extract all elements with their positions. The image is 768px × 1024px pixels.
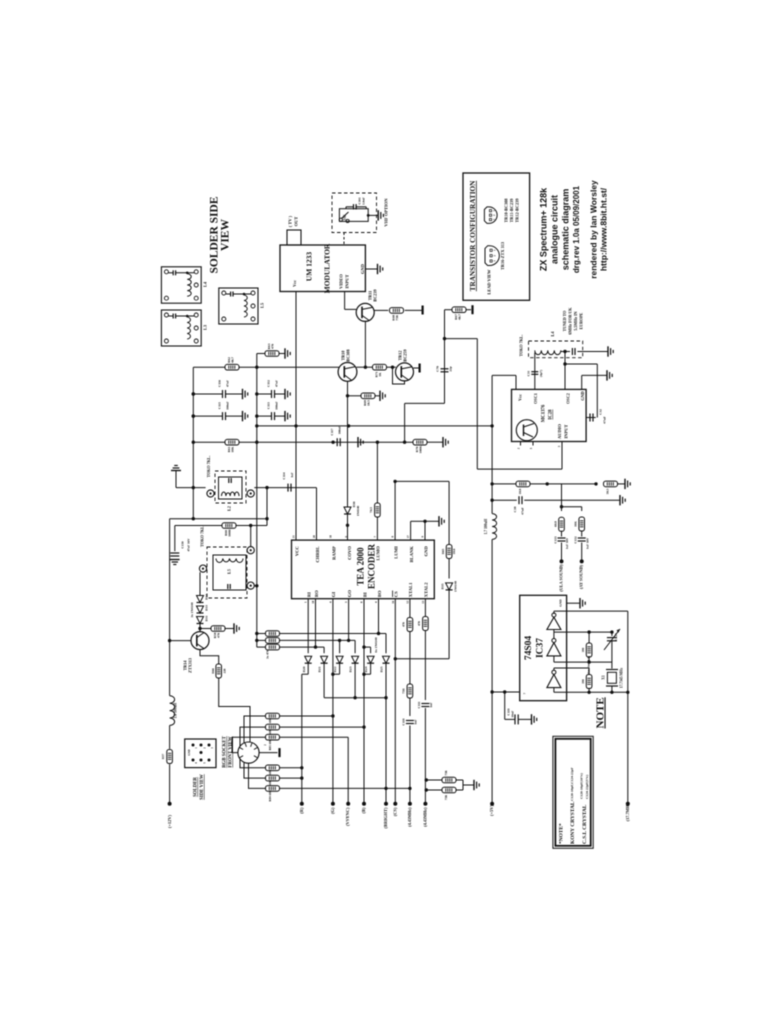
svg-text:17.7345 MHz: 17.7345 MHz [620, 667, 624, 688]
svg-text:C132: C132 [574, 536, 578, 543]
svg-text:IC37: IC37 [536, 638, 546, 658]
svg-text:FRONT VIEW: FRONT VIEW [229, 736, 234, 767]
svg-text:C70: C70 [436, 366, 440, 372]
svg-text:1.0nF: 1.0nF [362, 197, 366, 205]
svg-text:220: 220 [223, 668, 227, 673]
svg-text:75R: 75R [444, 794, 448, 800]
svg-text:C112: C112 [267, 380, 271, 387]
svg-text:C38: C38 [513, 506, 517, 512]
svg-text:AUDIO: AUDIO [557, 424, 562, 440]
svg-text:GND: GND [360, 263, 365, 274]
svg-text:(+12V): (+12V) [167, 814, 172, 828]
svg-text:BC259: BC259 [403, 349, 408, 361]
svg-text:TUNED TO: TUNED TO [562, 311, 567, 332]
svg-text:R57: R57 [161, 753, 165, 759]
svg-text:GI: GI [331, 592, 336, 598]
svg-text:TR10-BC308: TR10-BC308 [504, 198, 509, 222]
svg-text:390: 390 [581, 647, 585, 652]
svg-text:R65: R65 [441, 548, 445, 554]
svg-text:D22: D22 [333, 666, 337, 672]
svg-text:22p: 22p [449, 366, 453, 371]
svg-text:(+5V): (+5V) [489, 804, 494, 816]
svg-text:1K6: 1K6 [452, 548, 456, 554]
svg-text:C.S.L CRYSTAL: C.S.L CRYSTAL [582, 804, 588, 844]
svg-text:R66: R66 [211, 668, 215, 674]
svg-text:RGB SOCKET: RGB SOCKET [223, 735, 228, 767]
svg-text:1N4148: 1N4148 [454, 581, 458, 592]
svg-text:(BRIGHT): (BRIGHT) [383, 807, 388, 829]
svg-text:TR11-BC239: TR11-BC239 [509, 199, 514, 223]
svg-text:C111: C111 [417, 701, 421, 708]
svg-text:5.5MHz IN: 5.5MHz IN [573, 311, 578, 330]
svg-text:COVO: COVO [347, 546, 352, 560]
svg-text:schematic diagram: schematic diagram [561, 189, 571, 271]
svg-text:C120-10pF(10%): C120-10pF(10%) [580, 772, 584, 799]
svg-text:SW: SW [343, 214, 347, 220]
svg-text:MODULATOR: MODULATOR [323, 243, 332, 293]
svg-text:TR16-ZTX 313: TR16-ZTX 313 [500, 242, 505, 270]
svg-text:CHRBL: CHRBL [315, 546, 320, 562]
svg-text:RI: RI [307, 592, 312, 597]
svg-text:BI: BI [362, 592, 367, 597]
svg-text:C130: C130 [181, 541, 185, 548]
svg-text:4K7: 4K7 [231, 357, 235, 363]
svg-text:20: 20 [312, 535, 316, 539]
svg-text:6K8: 6K8 [554, 521, 558, 527]
svg-text:47uF: 47uF [226, 380, 230, 387]
svg-text:http://www.8bit.ht.st/: http://www.8bit.ht.st/ [599, 187, 609, 271]
svg-text:GND: GND [188, 749, 191, 755]
svg-text:C117: C117 [330, 428, 334, 435]
svg-text:INPUT: INPUT [345, 274, 350, 288]
svg-text:1N4148: 1N4148 [356, 505, 360, 516]
svg-text:UM 1233: UM 1233 [305, 252, 314, 282]
svg-text:C120-10pF,C124-22pF: C120-10pF,C124-22pF [570, 767, 574, 801]
svg-text:OSC1: OSC1 [533, 393, 538, 404]
svg-text:C124: C124 [614, 633, 618, 641]
svg-text:6MHz FOR UK: 6MHz FOR UK [568, 307, 573, 335]
svg-text:10K: 10K [231, 446, 235, 452]
svg-text:ZX Spectrum+ 128k: ZX Spectrum+ 128k [539, 187, 549, 271]
svg-text:D24: D24 [364, 666, 368, 672]
svg-text:100K: 100K [419, 445, 423, 453]
svg-text:(AY SOUND): (AY SOUND) [579, 564, 584, 589]
svg-text:X1: X1 [602, 675, 606, 680]
svg-text:(CS): (CS) [392, 807, 397, 816]
svg-text:VCC: VCC [294, 546, 299, 556]
svg-text:VHF OPTION: VHF OPTION [384, 198, 389, 227]
svg-text:TOKO 7KL.: TOKO 7KL. [206, 456, 211, 478]
svg-text:NOTE: NOTE [595, 697, 607, 728]
svg-text:RAMP: RAMP [331, 546, 336, 560]
svg-text:TRANSISTOR CONFIGURATION: TRANSISTOR CONFIGURATION [469, 180, 477, 291]
svg-text:TOKO 7KL.: TOKO 7KL. [200, 525, 205, 547]
svg-text:KONY CRYSTAL: KONY CRYSTAL [570, 801, 576, 844]
svg-text:OSC2: OSC2 [566, 393, 571, 404]
svg-text:47uF 16V: 47uF 16V [187, 538, 191, 552]
svg-text:RO: RO [314, 590, 319, 597]
svg-text:TR12-BC239: TR12-BC239 [515, 198, 520, 222]
svg-text:D34: D34 [205, 594, 209, 600]
svg-text:C124-22pF(5%): C124-22pF(5%) [585, 774, 589, 799]
svg-text:3x 470: 3x 470 [266, 650, 270, 659]
svg-text:21: 21 [292, 535, 296, 539]
svg-text:R81 68R: R81 68R [268, 738, 272, 750]
svg-text:( TV ): ( TV ) [288, 215, 293, 227]
svg-text:6x 1N4148: 6x 1N4148 [374, 637, 378, 652]
svg-text:75R: 75R [402, 688, 406, 694]
svg-text:SOLDER: SOLDER [194, 777, 199, 797]
svg-text:C32: C32 [599, 409, 603, 415]
svg-text:74S04: 74S04 [524, 636, 534, 661]
svg-text:ZTX313: ZTX313 [188, 658, 193, 673]
svg-text:1uF 16V: 1uF 16V [565, 537, 569, 549]
svg-text:OUT: OUT [294, 217, 299, 227]
svg-text:470: 470 [417, 621, 421, 626]
svg-text:1nF: 1nF [414, 719, 418, 724]
svg-text:D23: D23 [349, 666, 353, 672]
svg-text:(4.43MHz): (4.43MHz) [407, 807, 412, 827]
svg-text:75R: 75R [395, 314, 399, 320]
svg-text:XTAL1: XTAL1 [408, 582, 413, 597]
svg-text:3x 1N4148: 3x 1N4148 [190, 602, 194, 617]
svg-text:D25: D25 [380, 666, 384, 672]
svg-text:C113: C113 [267, 402, 271, 409]
svg-text:(4p7): (4p7) [539, 370, 543, 377]
svg-text:LUMI: LUMI [393, 546, 398, 559]
svg-text:D31: D31 [205, 615, 209, 621]
svg-text:(B): (B) [361, 807, 366, 814]
svg-text:TOKO 7KL.: TOKO 7KL. [519, 335, 524, 357]
svg-text:LUMO: LUMO [376, 546, 381, 561]
svg-text:1K: 1K [378, 372, 382, 377]
svg-text:XTAL2: XTAL2 [424, 582, 429, 597]
svg-text:Vcc: Vcc [292, 280, 297, 287]
svg-text:(ULA SOUND): (ULA SOUND) [558, 564, 563, 592]
svg-text:13: 13 [421, 600, 425, 604]
svg-text:100nF: 100nF [226, 401, 230, 410]
svg-text:CS: CS [394, 591, 399, 597]
svg-text:390: 390 [581, 679, 585, 684]
svg-text:C115: C115 [218, 402, 222, 409]
svg-text:SIDE VIEW: SIDE VIEW [200, 774, 205, 800]
svg-text:(VSYNC): (VSYNC) [345, 807, 350, 826]
svg-text:IC28: IC28 [549, 409, 554, 420]
svg-text:Vcc: Vcc [518, 394, 523, 401]
svg-text:10K: 10K [574, 521, 578, 527]
svg-text:470: 470 [271, 344, 275, 349]
svg-text:rendered by Ian Worsley: rendered by Ian Worsley [589, 180, 599, 279]
svg-text:100nF: 100nF [338, 426, 342, 435]
svg-text:1nF: 1nF [429, 702, 433, 707]
svg-text:D35: D35 [441, 583, 445, 589]
svg-text:(4.43MHz): (4.43MHz) [422, 807, 427, 827]
svg-text:12: 12 [405, 600, 409, 604]
svg-text:BO: BO [377, 590, 382, 597]
svg-text:EUROPE: EUROPE [579, 312, 584, 329]
svg-text:C31: C31 [527, 370, 531, 376]
svg-text:L6 100uH: L6 100uH [174, 703, 178, 718]
svg-text:100nF: 100nF [275, 401, 279, 410]
svg-text:C116: C116 [218, 380, 222, 387]
svg-text:L3: L3 [203, 324, 208, 330]
svg-text:1uF 16V: 1uF 16V [586, 537, 590, 549]
svg-text:1K5: 1K5 [367, 400, 371, 406]
svg-text:(G): (G) [330, 807, 335, 814]
svg-text:L5: L5 [260, 302, 265, 308]
svg-text:BLANK: BLANK [409, 546, 414, 563]
svg-text:GND: GND [559, 599, 563, 607]
svg-text:100R: 100R [228, 529, 232, 537]
svg-text:R84 68R: R84 68R [268, 790, 272, 802]
svg-text:MC1376: MC1376 [542, 404, 547, 422]
svg-text:18: 18 [311, 600, 315, 604]
svg-text:L5: L5 [227, 569, 232, 574]
svg-text:L4: L4 [203, 281, 208, 287]
svg-text:3K3: 3K3 [606, 488, 610, 494]
svg-text:47uF: 47uF [603, 416, 607, 423]
svg-text:GND: GND [580, 391, 585, 400]
svg-text:47uF: 47uF [521, 507, 525, 514]
svg-text:#See sheet3.3: #See sheet3.3 [587, 657, 591, 675]
svg-text:(17.7MHz): (17.7MHz) [625, 801, 630, 821]
svg-text:7K5: 7K5 [369, 507, 373, 513]
svg-text:L2: L2 [227, 506, 232, 511]
svg-text:47uF: 47uF [275, 380, 279, 387]
svg-text:GO: GO [347, 590, 352, 598]
svg-text:16: 16 [391, 600, 395, 604]
svg-text:75R: 75R [444, 770, 448, 776]
svg-text:LEAD VIEW: LEAD VIEW [487, 269, 492, 295]
svg-text:INPUT: INPUT [564, 424, 569, 438]
svg-text:GND: GND [423, 546, 428, 557]
svg-text:VIDEO: VIDEO [339, 274, 344, 289]
svg-text:10nF: 10nF [511, 711, 515, 718]
svg-text:D33: D33 [205, 605, 209, 611]
svg-text:C114: C114 [282, 472, 286, 479]
svg-text:D20: D20 [302, 666, 306, 672]
svg-text:L7 100uH: L7 100uH [484, 519, 488, 534]
svg-text:470: 470 [402, 622, 406, 627]
svg-text:17: 17 [406, 535, 410, 539]
svg-text:D21: D21 [318, 666, 322, 672]
svg-text:1K0: 1K0 [518, 488, 522, 494]
svg-text:4K7: 4K7 [458, 314, 462, 320]
svg-text:(R): (R) [299, 807, 304, 814]
svg-text:VIEW: VIEW [220, 219, 232, 251]
svg-text:470: 470 [217, 633, 221, 638]
svg-text:C133: C133 [554, 536, 558, 543]
svg-text:18: 18 [329, 535, 333, 539]
svg-text:1uF: 1uF [290, 472, 294, 477]
svg-text:BC308: BC308 [346, 349, 351, 361]
svg-text:drg.rev 1.0a 05/09/2001: drg.rev 1.0a 05/09/2001 [572, 185, 581, 273]
svg-text:TEA 2000: TEA 2000 [356, 547, 366, 586]
svg-text:analogue circuit: analogue circuit [550, 195, 560, 264]
svg-text:C118: C118 [402, 718, 406, 725]
svg-text:BC239: BC239 [373, 289, 378, 301]
svg-text:*NOTE*: *NOTE* [559, 823, 565, 844]
